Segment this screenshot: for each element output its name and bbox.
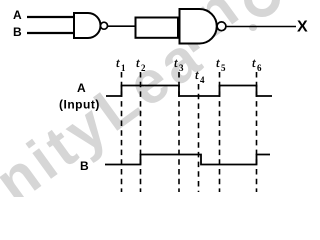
svg-text:munityLea: munityLea (0, 22, 215, 197)
svg-text:t: t (136, 55, 140, 70)
svg-text:3: 3 (179, 63, 184, 73)
dashed line t5 (219, 72, 221, 192)
box (delay element) (136, 18, 179, 38)
svg-text:4: 4 (200, 75, 205, 85)
dashed line t3 (178, 72, 180, 192)
label t4 (195, 67, 205, 85)
svg-text:(Input): (Input) (59, 98, 100, 112)
svg-text:2: 2 (141, 63, 146, 73)
svg-text:X: X (297, 19, 308, 36)
svg-text:A: A (77, 81, 86, 95)
svg-text:t: t (195, 67, 199, 82)
label t1 (116, 55, 126, 73)
waveform B (105, 155, 270, 165)
wire A input (27, 16, 74, 18)
wire U2 output to X (226, 26, 296, 28)
label t6 (252, 55, 262, 73)
svg-text:B: B (80, 159, 89, 173)
dashed line t2 (140, 72, 142, 192)
svg-text:6: 6 (257, 63, 262, 73)
svg-text:B: B (13, 25, 22, 39)
svg-text:A: A (13, 8, 22, 22)
waveform A (106, 86, 272, 97)
wire U1 output to box (108, 25, 137, 27)
svg-text:t: t (252, 55, 256, 70)
svg-text:1: 1 (121, 63, 126, 73)
svg-text:t: t (216, 55, 220, 70)
wire B input (27, 32, 74, 34)
dashed line t4 (198, 84, 200, 192)
svg-text:t: t (116, 55, 120, 70)
svg-text:t: t (174, 55, 178, 70)
dashed line t1 (121, 72, 123, 192)
NAND gate U1 (74, 13, 108, 38)
NAND gate U2 (180, 9, 226, 44)
svg-text:5: 5 (221, 63, 226, 73)
label A (Input) (59, 81, 100, 112)
label t2 (136, 55, 146, 73)
label t3 (174, 55, 184, 73)
label t5 (216, 55, 226, 73)
dashed line t6 (256, 72, 258, 192)
